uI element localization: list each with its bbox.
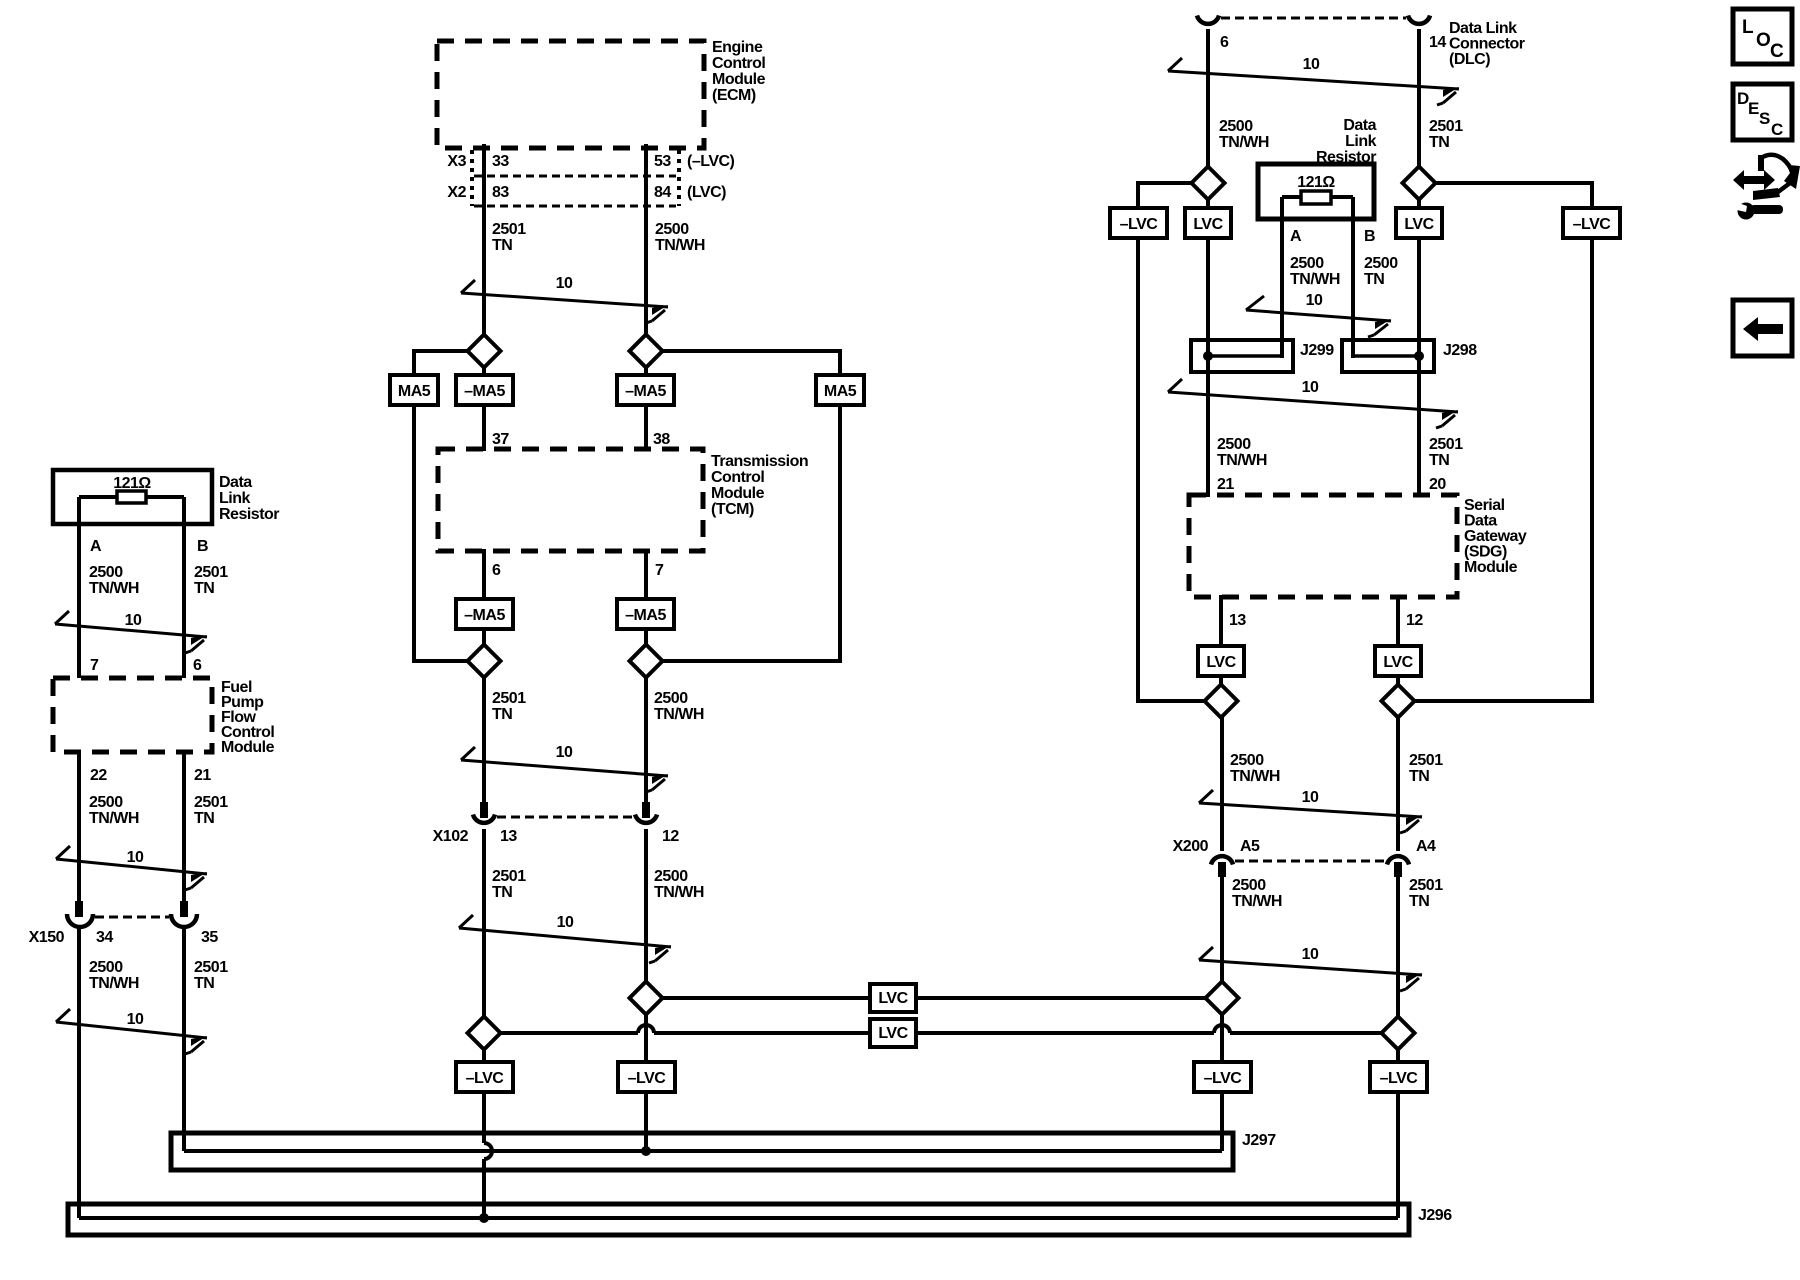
svg-text:LVC: LVC [1206, 654, 1236, 671]
svg-text:21: 21 [1217, 476, 1234, 493]
svg-text:–LVC: –LVC [628, 1070, 667, 1087]
svg-text:34: 34 [96, 929, 113, 946]
svg-text:X200: X200 [1173, 838, 1209, 855]
net box -LVC (bus left) [1194, 1062, 1251, 1092]
wire right column X150 to J297 [182, 928, 186, 1151]
net box -MA5 (right) [617, 375, 674, 405]
net box -MA5 (left) [456, 375, 513, 405]
svg-text:C: C [1770, 41, 1784, 62]
svg-text:A: A [90, 538, 102, 555]
svg-text:6: 6 [492, 562, 501, 579]
wire -LVC right to J297 [644, 1092, 648, 1151]
svg-text:J296: J296 [1418, 1207, 1452, 1224]
connector X102 pin 12 female arc [635, 815, 657, 823]
wire MA5 left branch [414, 351, 467, 661]
net box LVC (SDG right) [1375, 646, 1421, 676]
svg-text:10: 10 [557, 914, 574, 931]
svg-text:–MA5: –MA5 [625, 607, 666, 624]
splice bus J297 inner wire [184, 1149, 1222, 1153]
wire diamond BL to X102 pin 13 [482, 677, 486, 803]
svg-text:13: 13 [1229, 612, 1246, 629]
svg-text:10: 10 [556, 275, 573, 292]
net box -LVC (bus right) [1370, 1062, 1427, 1092]
wire ECM pin 53 down (2500 TN/WH) [644, 144, 648, 375]
svg-text:L: L [1742, 17, 1754, 38]
svg-text:–LVC: –LVC [1573, 216, 1612, 233]
junction diamond bottom-right [630, 645, 663, 678]
wire -MA5 to TCM pin 38 [644, 405, 648, 451]
junction diamond center-left (LVC lower) [468, 1017, 501, 1050]
svg-text:10: 10 [125, 612, 142, 629]
junction diamond SDG-left [1205, 685, 1238, 718]
junction dot at J296 [479, 1213, 489, 1223]
svg-text:X3: X3 [447, 153, 466, 170]
junction dot J299 [1203, 351, 1213, 361]
wire LVC left to SDG pin 21 [1206, 238, 1210, 497]
connector X150 pin 35 male terminal [180, 901, 188, 917]
net box MA5 (right) [816, 375, 864, 405]
wire resistor lead A down [1280, 197, 1284, 358]
svg-text:35: 35 [201, 929, 218, 946]
svg-text:10: 10 [1302, 946, 1319, 963]
wire 2500 TN/WH left column A [77, 497, 81, 678]
connector X102 dashed tie line [497, 816, 633, 819]
wire -LVC outer right down to diamond [1414, 238, 1592, 701]
data link resistor box left [53, 470, 212, 524]
svg-text:83: 83 [492, 184, 509, 201]
crossing arrow 10 (E) [1246, 296, 1391, 337]
junction diamond bus-right [1382, 1017, 1415, 1050]
wire MA5 right branch [662, 351, 840, 661]
wire left column pins 22 to X150 [77, 752, 81, 903]
wire left column X150 to J296 [77, 928, 81, 1218]
junction diamond DLC-left [1192, 167, 1225, 200]
svg-text:38: 38 [653, 431, 670, 448]
net box -LVC (center left) [456, 1062, 513, 1092]
svg-text:121Ω: 121Ω [113, 475, 151, 492]
svg-text:10: 10 [1306, 292, 1323, 309]
svg-text:LVC: LVC [1404, 216, 1434, 233]
svg-text:10: 10 [1302, 789, 1319, 806]
wire TCM pin 6 down [482, 549, 486, 599]
connector DLC pin 14 female arc [1408, 16, 1430, 24]
net box -LVC (center right) [618, 1062, 675, 1092]
connector X150 dashed tie line [95, 916, 169, 919]
connector X150 pin 35 female arc [171, 914, 197, 927]
svg-text:X150: X150 [29, 929, 65, 946]
net box LVC (upper link) [870, 984, 916, 1012]
bus link wire LVC (upper) [646, 996, 1207, 1000]
wire X200 A4 to diamond [1396, 877, 1400, 1062]
net box LVC (lower link) [870, 1019, 916, 1047]
junction diamond top-right [630, 335, 663, 368]
connector DLC dashed tie line [1221, 17, 1406, 20]
svg-text:–MA5: –MA5 [625, 383, 666, 400]
icon box LOC [1733, 9, 1792, 64]
connector row divider dashed (X3/X2) [474, 175, 676, 178]
splice bus J296 inner wire [79, 1216, 1398, 1220]
svg-text:J297: J297 [1242, 1132, 1276, 1149]
svg-text:X102: X102 [433, 828, 469, 845]
wire -LVC outer left branch [1138, 183, 1192, 208]
svg-text:10: 10 [556, 744, 573, 761]
crossing arrow 10 (H) [1199, 947, 1422, 991]
svg-text:53: 53 [654, 153, 671, 170]
svg-text:6: 6 [1220, 34, 1229, 51]
wire diamond to X200 pin A5 [1220, 717, 1224, 851]
crossing arrow 10 (F) [1168, 379, 1458, 428]
fuel pump flow control module box [53, 678, 212, 752]
svg-text:–LVC: –LVC [466, 1070, 505, 1087]
splice box J299 [1191, 340, 1293, 372]
wire diamond TL to -MA5 [482, 351, 486, 405]
svg-text:–MA5: –MA5 [464, 383, 505, 400]
svg-text:–LVC: –LVC [1204, 1070, 1243, 1087]
bus link wire LVC (lower) with hops [484, 1025, 1382, 1033]
wire LVC to diamond right [1396, 676, 1400, 717]
icon arrows and wrench [1732, 155, 1800, 220]
wire -LVC left to J296 with hop over J297 [484, 1092, 492, 1218]
junction diamond top-left [468, 335, 501, 368]
svg-text:12: 12 [662, 828, 679, 845]
svg-text:(–LVC): (–LVC) [687, 153, 735, 170]
svg-text:(LVC): (LVC) [687, 184, 726, 201]
resistor R2 121 ohm element [1282, 195, 1301, 199]
connector DLC pin 6 female arc [1197, 16, 1219, 24]
junction diamond bottom-left [468, 645, 501, 678]
junction dot J298 [1414, 351, 1424, 361]
svg-text:J298: J298 [1443, 342, 1477, 359]
crossing arrow 10 (3) [459, 915, 671, 963]
serial data gateway module box [1189, 495, 1457, 597]
svg-text:7: 7 [655, 562, 664, 579]
connector X200 pin A5 male terminal [1218, 862, 1226, 877]
wire LVC right to SDG pin 20 [1417, 238, 1421, 497]
svg-text:LVC: LVC [1193, 216, 1223, 233]
junction diamond bus-left [1206, 982, 1239, 1015]
connector X3/X2 dotted left boundary [470, 150, 474, 206]
wire DLC pin 6 down (2500 TN/WH) [1206, 29, 1210, 208]
svg-text:84: 84 [654, 184, 671, 201]
wire X102 pin 12 to diamond [644, 829, 648, 1062]
connector X102 pin 13 male terminal [480, 802, 488, 818]
crossing arrow 10 (A) [55, 611, 207, 653]
svg-text:–LVC: –LVC [1120, 216, 1159, 233]
wire SDG pin 13 down [1219, 595, 1223, 646]
crossing arrow 10 (D) [1168, 58, 1459, 105]
wire LVC to diamond left [1219, 676, 1223, 717]
svg-text:6: 6 [193, 657, 202, 674]
wire ECM pin 33 down (2501 TN) [482, 144, 486, 375]
connector X200 pin A4 male terminal [1394, 862, 1402, 877]
svg-text:A4: A4 [1416, 838, 1436, 855]
svg-text:B: B [1364, 228, 1375, 245]
crossing arrow 10 (G) [1199, 790, 1422, 833]
svg-text:21: 21 [194, 767, 211, 784]
svg-text:–LVC: –LVC [1380, 1070, 1419, 1087]
svg-text:A: A [1290, 228, 1302, 245]
svg-text:10: 10 [1303, 56, 1320, 73]
svg-text:A5: A5 [1240, 838, 1260, 855]
splice box J298 [1342, 340, 1434, 372]
wire SDG pin 12 down [1396, 595, 1400, 646]
net box -LVC (outer left) [1110, 208, 1167, 238]
svg-text:C: C [1771, 120, 1783, 139]
svg-text:10: 10 [127, 849, 144, 866]
splice J299 internal wire [1208, 354, 1281, 358]
wire -LVC outer left down to diamond [1138, 238, 1205, 701]
icon box back arrow [1733, 300, 1792, 356]
wire diamond BR to X102 pin 12 [644, 677, 648, 803]
junction diamond DLC-right [1403, 167, 1436, 200]
net box -MA5 (lower left) [456, 599, 513, 629]
transmission control module box [438, 449, 703, 551]
net box -MA5 (lower right) [617, 599, 674, 629]
svg-text:22: 22 [90, 767, 107, 784]
data link resistor box right [1258, 164, 1374, 219]
wire TCM pin 7 down [644, 549, 648, 599]
connector X200 dashed tie line [1235, 860, 1385, 863]
svg-text:14: 14 [1429, 34, 1446, 51]
wire -LVC to J296 [1396, 1092, 1400, 1218]
net box LVC (right) [1396, 208, 1442, 238]
wire right column pins 21 to X150 [182, 752, 186, 903]
splice bus J297 outline [171, 1133, 1233, 1170]
net box LVC (left) [1185, 208, 1231, 238]
wire -MA5 to TCM pin 37 [482, 405, 486, 451]
crossing arrow 10 (2) [461, 747, 668, 792]
net box MA5 (left) [390, 375, 438, 405]
svg-text:20: 20 [1429, 476, 1446, 493]
svg-text:J299: J299 [1300, 342, 1334, 359]
crossing arrow 10 (C) [56, 1009, 207, 1054]
svg-text:7: 7 [90, 657, 99, 674]
junction diamond SDG-right [1382, 685, 1415, 718]
svg-text:121Ω: 121Ω [1297, 174, 1335, 191]
svg-text:S: S [1759, 109, 1770, 128]
connector X102 pin 12 male terminal [642, 802, 650, 818]
connector X102 pin 13 female arc [473, 815, 495, 823]
crossing arrow 10 (1) [461, 280, 668, 323]
svg-text:33: 33 [492, 153, 509, 170]
wire DLC pin 14 down (2501 TN) [1417, 29, 1421, 208]
svg-text:37: 37 [492, 431, 509, 448]
wire -LVC outer right branch [1435, 183, 1592, 208]
svg-text:13: 13 [500, 828, 517, 845]
svg-text:MA5: MA5 [824, 383, 857, 400]
svg-text:MA5: MA5 [398, 383, 431, 400]
engine control module box [437, 41, 704, 148]
svg-text:LVC: LVC [878, 990, 908, 1007]
connector X200 pin A4 female arc [1387, 856, 1409, 864]
connector X3/X2 dotted right boundary [677, 150, 681, 206]
connector row bottom dashed (X2) [474, 205, 676, 208]
wire -LVC to J297 [1220, 1092, 1224, 1151]
wire X102 pin 13 to diamond [482, 829, 486, 1062]
svg-text:B: B [197, 538, 208, 555]
svg-text:O: O [1756, 30, 1771, 51]
wire diamond to X200 pin A4 [1396, 717, 1400, 851]
wire X200 A5 to diamond [1220, 877, 1224, 1062]
svg-text:10: 10 [1302, 379, 1319, 396]
net box LVC (SDG left) [1198, 646, 1244, 676]
connector X150 pin 34 female arc [67, 914, 93, 927]
connector X200 pin A5 female arc [1211, 856, 1233, 864]
wire -MA5 to diamond BR [644, 629, 648, 677]
wire diamond TR to -MA5 [644, 351, 648, 405]
svg-text:–MA5: –MA5 [464, 607, 505, 624]
crossing arrow 10 (B) [56, 846, 207, 890]
svg-text:X2: X2 [447, 184, 466, 201]
junction dot at J297 [641, 1146, 651, 1156]
svg-text:LVC: LVC [878, 1025, 908, 1042]
svg-text:LVC: LVC [1383, 654, 1413, 671]
wire resistor lead B down [1351, 197, 1355, 358]
icon box DESC [1733, 84, 1792, 140]
wire -MA5 to diamond BL [482, 629, 486, 677]
net box -LVC (outer right) [1563, 208, 1620, 238]
splice J298 internal wire [1353, 354, 1419, 358]
connector X150 pin 34 male terminal [75, 901, 83, 917]
resistor R1 121 ohm element [79, 495, 117, 499]
svg-text:12: 12 [1406, 612, 1423, 629]
svg-text:E: E [1748, 99, 1759, 118]
wire 2501 TN right column B [182, 497, 186, 678]
svg-text:10: 10 [127, 1011, 144, 1028]
junction diamond center-right (LVC upper) [630, 982, 663, 1015]
splice bus J296 outline [68, 1204, 1409, 1235]
